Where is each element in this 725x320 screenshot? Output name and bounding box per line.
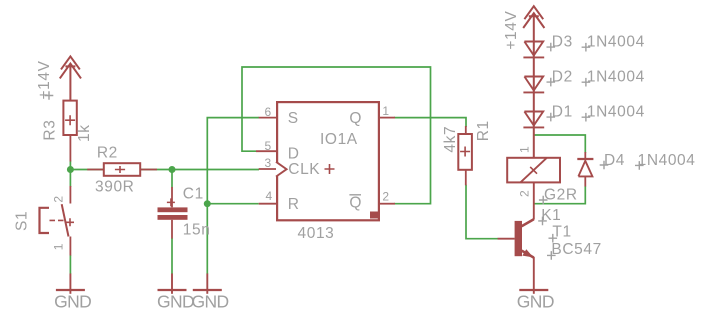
svg-text:4k7: 4k7	[442, 126, 459, 153]
svg-text:K1: K1	[541, 207, 561, 224]
svg-text:C1: C1	[183, 186, 204, 203]
label D3 with origin cross	[547, 33, 573, 51]
svg-text:GND: GND	[517, 291, 554, 311]
op IC IO1A 4013 flip-flop box	[276, 102, 379, 220]
label D1 with origin cross	[547, 103, 573, 121]
IC pin 3 CLK stub	[259, 168, 276, 170]
svg-text:4: 4	[266, 189, 273, 203]
svg-text:1k: 1k	[76, 124, 93, 142]
svg-text:2: 2	[382, 190, 389, 204]
svg-text:IO1A: IO1A	[320, 131, 358, 148]
svg-text:+14V: +14V	[503, 11, 520, 50]
label BC547 with origin cross	[547, 241, 602, 260]
supply +14V symbol left	[60, 56, 81, 100]
svg-text:390R: 390R	[95, 178, 134, 195]
svg-text:BC547: BC547	[551, 241, 601, 258]
IC pin 6 S stub	[259, 117, 276, 119]
label D4 with origin cross	[600, 152, 625, 170]
label 1N4004 row D4 with origin cross	[635, 152, 696, 170]
svg-text:GND: GND	[192, 291, 229, 311]
svg-text:2: 2	[52, 196, 66, 203]
svg-text:1N4004: 1N4004	[587, 33, 645, 50]
svg-text:1N4004: 1N4004	[587, 103, 645, 120]
IC pin 2 Qbar stub	[380, 203, 395, 205]
IC pin 5 D stub	[256, 150, 276, 152]
svg-text:1N4004: 1N4004	[587, 68, 645, 85]
wire D feedback from Q-bar pin2 to D pin5	[242, 67, 431, 204]
label T1 with origin cross	[549, 224, 572, 243]
label D2 with origin cross	[547, 68, 573, 86]
svg-text:2: 2	[518, 190, 532, 197]
label 1N4004 row D1 with origin cross	[582, 103, 645, 121]
junction dot A	[67, 166, 74, 173]
wire S and R pins to GND net	[207, 118, 259, 274]
label G2R with origin cross	[539, 187, 578, 205]
svg-text:6: 6	[265, 105, 272, 119]
svg-text:D: D	[288, 145, 300, 162]
ground symbol for S/R net	[193, 274, 222, 294]
grey origin cross near R3 name	[45, 91, 54, 100]
label 1N4004 row D3 with origin cross	[582, 33, 645, 51]
capacitor C1	[158, 187, 188, 239]
IC pin 1 Q stub	[380, 117, 395, 119]
ground symbol under T1 emitter	[519, 289, 548, 291]
diode D3	[523, 42, 544, 58]
wire S1 bottom to GND	[69, 255, 71, 274]
svg-text:D4: D4	[604, 152, 625, 169]
resistor R1	[458, 126, 472, 185]
resistor R3	[63, 101, 76, 162]
wire relay top to D4 cathode	[534, 135, 586, 153]
svg-text:R3: R3	[41, 120, 58, 141]
diode D4 flyback	[577, 152, 593, 187]
svg-text:1N4004: 1N4004	[638, 152, 696, 169]
svg-text:Q: Q	[349, 195, 362, 212]
supply +14V symbol right	[523, 6, 544, 158]
junction dot at S/R gnd net	[204, 200, 211, 207]
svg-text:+14V: +14V	[36, 60, 53, 99]
ground symbol under S1	[56, 274, 85, 294]
wire C1 branch vertical	[171, 170, 173, 275]
svg-text:S: S	[288, 110, 299, 127]
svg-text:4013: 4013	[298, 225, 335, 242]
IC pin 4 R stub	[259, 203, 276, 205]
svg-text:15n: 15n	[183, 222, 211, 239]
transistor T1 BC547	[498, 219, 534, 294]
svg-text:5: 5	[265, 139, 272, 153]
svg-text:R2: R2	[97, 145, 118, 162]
diode D2	[523, 77, 544, 93]
label 1N4004 row D2 with origin cross	[582, 68, 645, 86]
switch S1	[40, 186, 75, 256]
svg-text:Q: Q	[349, 110, 362, 127]
svg-text:CLK: CLK	[288, 161, 320, 178]
svg-text:G2R: G2R	[544, 187, 578, 204]
svg-text:R: R	[288, 196, 300, 213]
label Qbar inside IC	[349, 195, 362, 212]
svg-text:S1: S1	[14, 211, 31, 231]
svg-text:1: 1	[518, 146, 532, 153]
junction dot B at C1 tap	[169, 166, 176, 173]
label K1 with origin cross	[538, 207, 561, 225]
wire D4 anode to collector node	[534, 186, 585, 203]
wire Q net pin1 to R1 to T1 base	[394, 118, 498, 239]
relay coil K1	[507, 158, 560, 220]
resistor R2	[87, 163, 157, 176]
svg-text:1: 1	[382, 104, 389, 118]
svg-text:R1: R1	[475, 120, 492, 141]
diode D1	[523, 112, 544, 128]
svg-text:GND: GND	[54, 291, 91, 311]
svg-text:3: 3	[265, 156, 272, 170]
svg-text:1: 1	[52, 243, 66, 250]
svg-text:GND: GND	[157, 291, 194, 311]
ground symbol under C1	[158, 274, 187, 294]
wire net CLK horizontal from junction A to IC pin3	[70, 161, 259, 188]
